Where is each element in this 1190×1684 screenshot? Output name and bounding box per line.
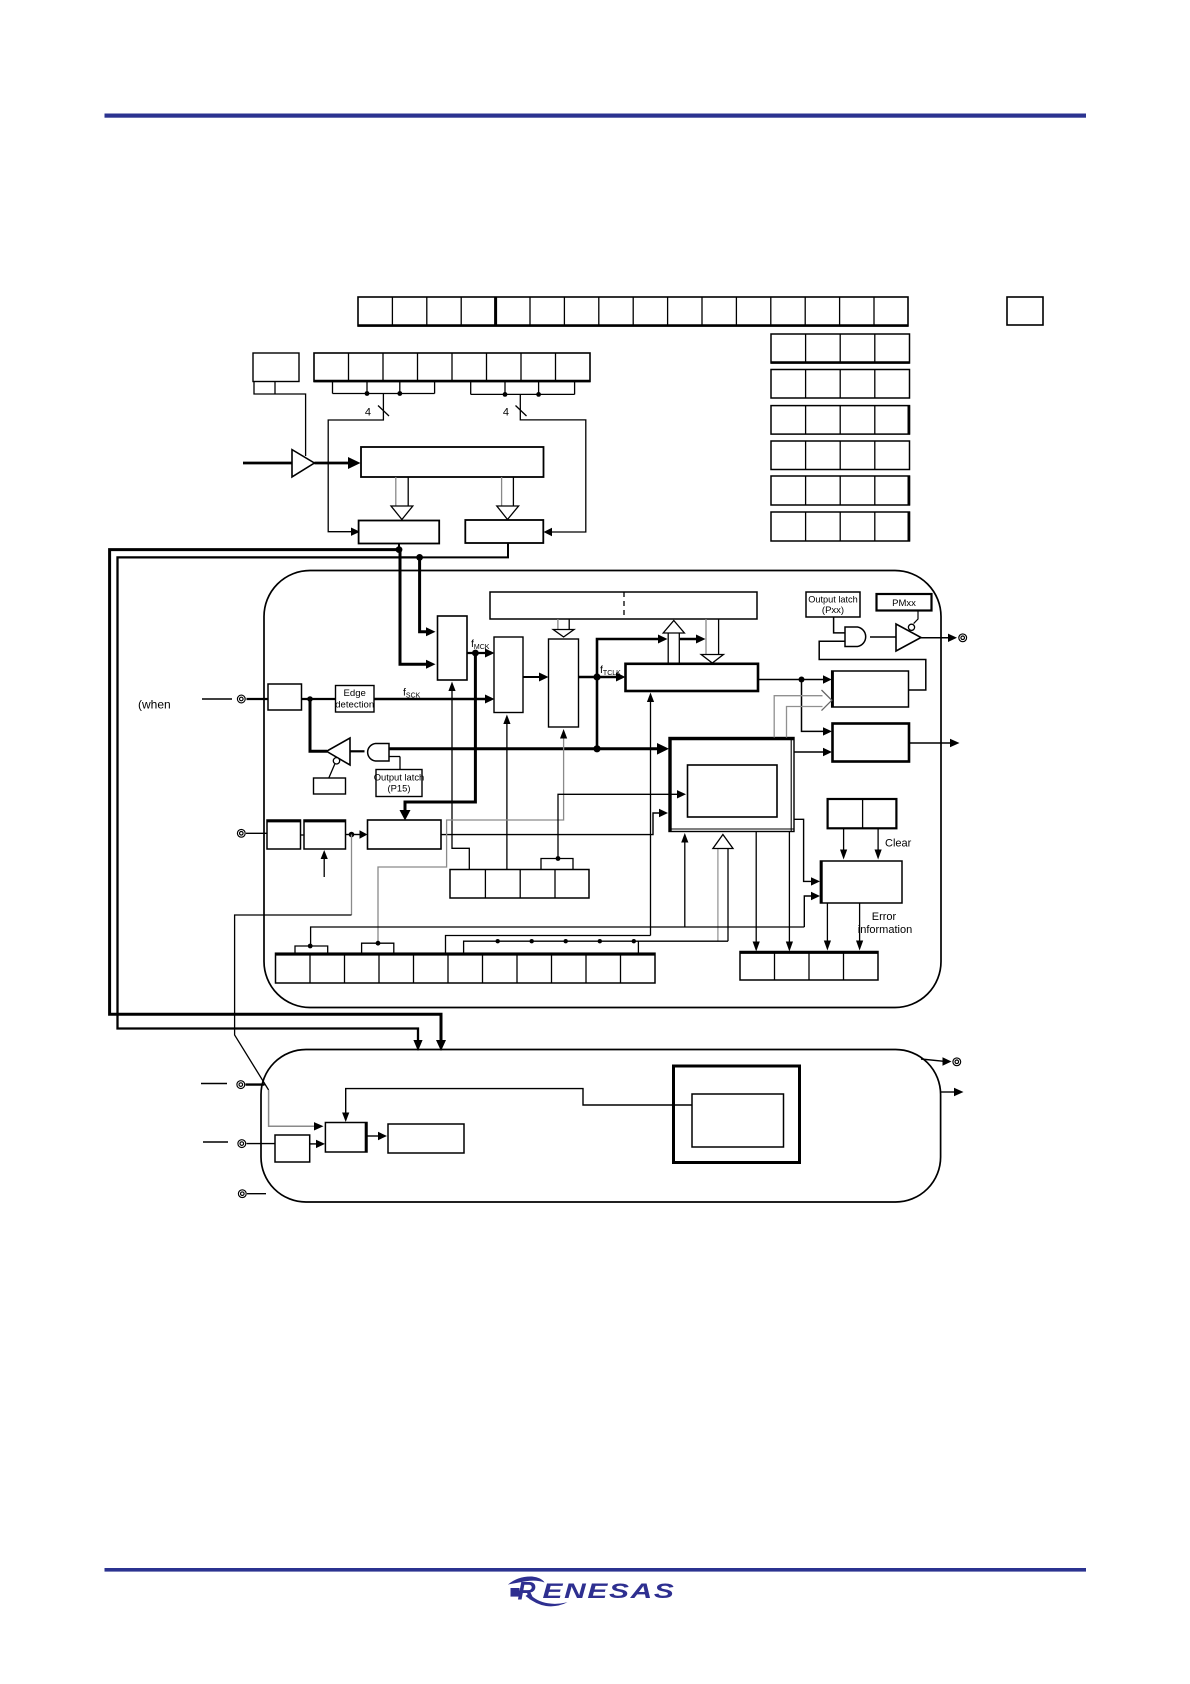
prescaler B1 — [494, 637, 523, 713]
up arrow into B1 bottom — [503, 715, 510, 870]
svg-text:Output latch: Output latch — [374, 772, 425, 783]
up arrow into S1 bottom via jog — [448, 682, 469, 870]
fMCK thick line down to serial counter — [400, 653, 476, 821]
fSCK wire edge detection to B1 — [374, 687, 495, 704]
latch Pxx wire to AND2 — [834, 617, 845, 633]
B to serial counter wire — [346, 830, 368, 838]
big top box (timer input select) — [361, 447, 544, 477]
svg-text:information: information — [858, 924, 912, 936]
lower unit rounded block — [261, 1050, 941, 1203]
lower edge detect box M — [325, 1123, 367, 1153]
SR bottom arrows into status row — [753, 832, 793, 952]
small register box top right — [1007, 297, 1043, 325]
SCK pin wire into noise filter — [202, 698, 268, 700]
fMCK wire S1 to B1 — [467, 638, 495, 658]
SR right side wire down to error detector — [794, 819, 820, 885]
staple under single box, wire to buffer — [254, 382, 306, 457]
right 4-bit bus with "4" slash — [503, 394, 586, 536]
hollow up arrow into SR bottom — [713, 835, 733, 942]
lower block: pin b3 — [238, 1190, 266, 1198]
svg-text:Error: Error — [872, 911, 897, 923]
wire bus1 down into selector — [400, 550, 436, 669]
gray wire into lower block to M box — [269, 1090, 324, 1131]
thick bus line 1 (left loop down to lower block) — [110, 550, 446, 1051]
input buffer triangle — [243, 450, 361, 477]
gray wire mode bits to B2 — [378, 737, 564, 943]
wire filter to edge detection with branch down — [302, 696, 336, 702]
right funnel under 8-cell row — [471, 382, 575, 397]
wire tab to SR inner box — [558, 790, 686, 858]
box C output to shift register — [441, 809, 668, 835]
timer data register high box — [465, 520, 543, 543]
TDR stubs to bus — [396, 543, 508, 561]
RxD filter box A — [267, 820, 301, 849]
M to R arrow — [367, 1132, 387, 1140]
wire lower SR inner box to M top — [342, 1089, 692, 1122]
long control register row — [276, 953, 656, 983]
timer counter box TC — [626, 664, 759, 691]
RxD detector box B — [301, 820, 346, 849]
hollow down arrow 1 — [391, 477, 413, 520]
top register row inside main block — [490, 592, 757, 619]
tab1 on control row — [295, 944, 328, 954]
clear flag 2-cell box — [828, 799, 897, 828]
B2 to TC wire fTCLK — [579, 664, 626, 682]
lower block: pin b1 with dash — [201, 1081, 265, 1089]
output latch (Pxx) box — [806, 592, 860, 617]
hollow down arrow row to counter — [701, 619, 723, 663]
timer data register low box — [359, 521, 440, 544]
tab on mode row — [541, 856, 573, 869]
16-cell register row — [358, 297, 908, 326]
status register row right — [740, 952, 878, 981]
right column register rows — [771, 334, 910, 541]
svg-text:Output latch: Output latch — [808, 595, 858, 605]
tab2 on control row — [362, 941, 394, 953]
TxD output wire and pin — [921, 634, 967, 642]
left 4-bit bus with "4" slash — [328, 394, 389, 536]
svg-text:ENESAS: ENESAS — [543, 1580, 676, 1603]
fTCLK branch down to serial line — [596, 677, 599, 749]
second input into error box from bus — [804, 892, 820, 927]
up arrow into SR bottom — [681, 833, 688, 927]
selector S1 — [438, 616, 468, 680]
thick serial clock line to shift register — [389, 743, 669, 755]
AND2 gate output control — [845, 627, 866, 647]
lower noise filter box S — [275, 1135, 310, 1162]
communication status box2 — [833, 724, 910, 762]
output buffer triangle — [870, 611, 921, 652]
hollow down arrow 2 — [497, 477, 519, 520]
bracket over control row cells — [464, 939, 728, 953]
lower block output arrow right — [941, 1088, 964, 1096]
svg-text:4: 4 — [365, 407, 371, 419]
edge detection box — [335, 686, 374, 713]
horizontal bus L1 tab1 to error riser — [311, 927, 805, 946]
mode register row — [450, 870, 589, 899]
shift register box (double border) — [669, 738, 794, 832]
port mode box below inverter — [314, 778, 346, 794]
arrowhead into B2 bottom — [560, 729, 567, 739]
box1 loop to AND gate — [819, 641, 926, 690]
inverter (SCK output driver) — [327, 738, 351, 778]
SR to box2 wire — [794, 748, 832, 756]
floating arrow into box B — [321, 850, 328, 877]
gray wire from RxD junction down-left out of block — [235, 835, 352, 1091]
PMxx box — [877, 594, 932, 611]
renesas logo — [508, 1576, 676, 1606]
lower shift register box (double border) — [674, 1066, 800, 1163]
main unit rounded block — [264, 571, 941, 1008]
selector B2 — [549, 639, 579, 727]
bus line 2 (inner loop down to lower block) — [118, 557, 423, 1051]
shift register inner box — [688, 765, 778, 817]
output latch (P15) box — [374, 770, 425, 797]
error information arrows — [824, 903, 912, 951]
wire bus2 down into selector — [420, 557, 436, 636]
svg-text:Edge: Edge — [343, 688, 365, 699]
svg-text:(when: (when — [138, 698, 171, 712]
hollow down arrow row to B2 selector — [553, 619, 574, 637]
up arrow into TC bottom — [647, 693, 654, 936]
lower block output pin top right — [921, 1057, 961, 1066]
svg-text:(P15): (P15) — [388, 783, 411, 794]
noise filter box at SCK pin — [268, 684, 302, 710]
header rule — [105, 114, 1087, 118]
pin SCK — [237, 695, 245, 703]
svg-text:Clear: Clear — [885, 838, 912, 850]
8-cell register row — [314, 353, 590, 382]
pin RxD — [237, 829, 267, 837]
horizontal bus L2 — [446, 936, 651, 954]
serial counter box C — [368, 820, 442, 849]
box2 output arrow — [909, 739, 960, 747]
left funnel under 8-cell row — [333, 382, 435, 396]
svg-text:(Pxx): (Pxx) — [822, 605, 844, 616]
lower block: pin b2 with dash — [203, 1140, 275, 1148]
lower counter box R — [388, 1124, 464, 1153]
svg-text:4: 4 — [503, 407, 509, 419]
TC output wire to box1 — [758, 675, 832, 683]
gray hollow arrow SR to box1 — [774, 690, 832, 738]
AND gate for SCK output — [350, 744, 400, 770]
B1 to B2 wire — [523, 673, 549, 682]
single box left — [253, 353, 299, 382]
branch down to box2 — [802, 680, 833, 736]
fTCLK branch up and right to register row arrows — [597, 635, 706, 678]
clear arrows down — [840, 828, 912, 859]
S to M arrow — [310, 1140, 325, 1148]
hollow up arrow from counter to row — [663, 621, 684, 665]
interrupt request box1 — [832, 671, 909, 707]
thick branch down to inverter — [310, 699, 327, 751]
svg-text:detection: detection — [335, 700, 374, 711]
footer rule — [105, 1568, 1087, 1572]
error detection box — [820, 861, 902, 903]
svg-text:PMxx: PMxx — [892, 598, 916, 609]
